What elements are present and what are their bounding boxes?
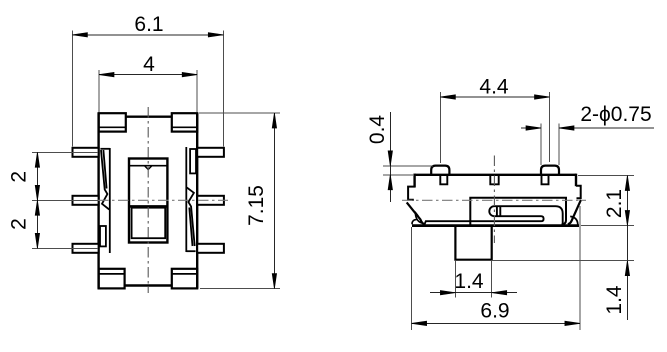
pin left 3 — [73, 244, 99, 253]
front body outline — [412, 174, 579, 226]
svg-text:0.4: 0.4 — [366, 115, 389, 145]
right upper contact plate — [190, 149, 196, 173]
bottom-left tab — [99, 269, 125, 289]
left view vertical centerline — [147, 107, 149, 293]
bottom-right tab — [172, 269, 197, 289]
front right foot — [570, 216, 578, 225]
left lower contact plate — [100, 226, 106, 246]
dimension 2-phi0.75 — [521, 124, 654, 166]
svg-text:1.4: 1.4 — [454, 270, 484, 293]
pin right 3 — [197, 244, 224, 253]
bump 1 — [431, 166, 449, 174]
svg-text:2: 2 — [8, 218, 31, 230]
svg-text:6.1: 6.1 — [134, 13, 163, 36]
dimension 1.4 right — [492, 260, 634, 262]
notch 1 — [440, 176, 447, 184]
front left ear — [408, 187, 415, 200]
dimension 4.4 — [440, 92, 549, 163]
svg-text:4.4: 4.4 — [479, 76, 509, 99]
front left chamfer — [407, 202, 425, 224]
right contact strip — [186, 147, 195, 252]
svg-text:1.4: 1.4 — [603, 285, 626, 315]
pin right 1 — [197, 148, 224, 157]
body left edge — [97, 113, 99, 289]
svg-text:6.9: 6.9 — [480, 300, 509, 323]
front vertical centerline — [493, 156, 495, 244]
svg-text:2.1: 2.1 — [603, 189, 626, 218]
pin left 2 — [73, 196, 99, 205]
svg-text:7.15: 7.15 — [245, 185, 268, 226]
dimension 6.1 — [72, 31, 223, 147]
floor line — [425, 221, 542, 224]
front left foot — [412, 212, 423, 225]
dimension 0.4 — [383, 112, 433, 202]
knob divider — [129, 205, 167, 208]
dimension 1.4 bottom — [430, 261, 517, 298]
svg-text:2: 2 — [8, 171, 31, 183]
left view horizontal centerline — [98, 199, 228, 201]
knob notch — [145, 166, 152, 170]
top-left tab — [99, 113, 126, 131]
front horizontal centerline — [402, 199, 586, 201]
front right chamfer — [568, 200, 581, 224]
notch 2 (center) — [490, 176, 498, 184]
svg-text:4: 4 — [143, 53, 155, 76]
pin left 1 — [73, 148, 99, 157]
dimension 2 upper — [32, 152, 98, 248]
bump 2 — [541, 166, 559, 174]
dimension 2 lower — [32, 247, 98, 249]
body top edge — [125, 115, 173, 117]
body bottom edge — [124, 284, 173, 286]
svg-text:2-ϕ0.75: 2-ϕ0.75 — [580, 103, 651, 126]
pin right 2 — [197, 196, 224, 205]
dimension 7.15 — [199, 113, 280, 289]
dimension 4 — [99, 70, 197, 112]
spring contact — [489, 206, 562, 224]
knob top band — [129, 165, 167, 167]
knob inner rect — [132, 208, 166, 239]
knob outer — [129, 159, 167, 243]
left contact strip — [100, 148, 109, 253]
notch 3 — [542, 176, 549, 184]
front right ear — [576, 186, 581, 199]
top-right tab — [172, 113, 197, 131]
body right edge — [196, 113, 198, 289]
actuator knob — [455, 226, 491, 260]
dimension 2.1 — [578, 176, 634, 321]
insert container — [470, 198, 566, 225]
dimension 6.9 — [412, 206, 580, 330]
